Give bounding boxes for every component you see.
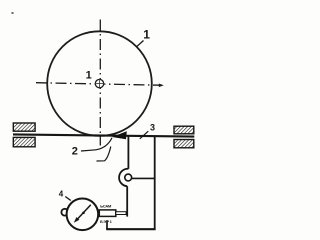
leader for label 3	[140, 131, 149, 139]
needle arrowhead	[74, 217, 80, 223]
needle pivot dot	[82, 212, 85, 215]
stray scan speck	[12, 12, 14, 14]
svg-text:1: 1	[143, 27, 150, 41]
frame bottom line	[106, 228, 155, 230]
center mark circle	[95, 79, 103, 87]
knife edge wedge (2)	[112, 131, 127, 139]
bracket lever upper arm	[127, 137, 129, 169]
right support top hatched block	[174, 126, 194, 134]
pivot circle	[125, 174, 132, 181]
left support bottom hatched block	[13, 137, 35, 146]
frame left stub	[106, 220, 108, 229]
frame right vertical	[154, 136, 156, 229]
dial indicator body (4)	[67, 199, 99, 231]
dial needle	[76, 205, 91, 221]
vertical centerline	[99, 20, 101, 146]
leader for label 4	[65, 197, 71, 201]
cylinder (circle)	[47, 31, 152, 136]
left support top hatched block	[13, 123, 35, 131]
dial indicator knob	[61, 209, 68, 216]
svg-text:ЬСАМ: ЬСАМ	[100, 203, 112, 208]
bracket lever lower arm	[126, 186, 128, 216]
plunger stem housing	[99, 210, 116, 217]
svg-text:4: 4	[59, 189, 64, 198]
center cross ticks	[95, 83, 104, 85]
svg-text:БЭР1: БЭР1	[100, 219, 113, 224]
right support bottom hatched block	[174, 140, 194, 148]
pivot bulge arc	[119, 169, 128, 186]
horizontal centerline	[36, 83, 160, 86]
leader for label 2	[81, 150, 96, 151]
svg-text:1: 1	[86, 69, 92, 81]
svg-text:3: 3	[150, 122, 155, 132]
centerline arrowhead	[159, 84, 164, 88]
plunger rod	[116, 212, 126, 215]
pivot horizontal link	[132, 177, 155, 179]
svg-text:2: 2	[72, 145, 78, 157]
leader for label 1	[137, 41, 144, 47]
table line	[13, 134, 194, 136]
